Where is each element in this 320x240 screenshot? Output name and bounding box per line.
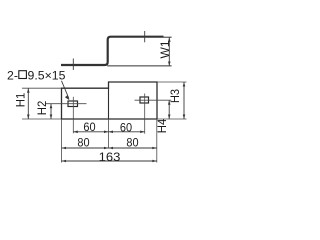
front view plate outline [62, 82, 158, 119]
dimension H2 line [50, 104, 52, 119]
svg-text:163: 163 [99, 150, 121, 164]
right hole horizontal centerline [135, 99, 172, 101]
svg-text:80: 80 [77, 136, 89, 150]
svg-text:H1: H1 [14, 92, 28, 107]
H3 top extension line [157, 81, 187, 83]
dimension W1 line [168, 37, 170, 66]
svg-text:H2: H2 [35, 100, 49, 115]
svg-text:60: 60 [120, 120, 132, 134]
svg-text:9.5×15: 9.5×15 [28, 68, 66, 82]
H1 bottom extension line [22, 118, 61, 120]
dimension H3 line [183, 82, 185, 119]
left hole horizontal centerline [45, 103, 87, 105]
svg-text:W1: W1 [158, 40, 172, 58]
left slot hole [68, 101, 78, 107]
step line lower extension [108, 119, 110, 148]
dimension H4 line [168, 100, 170, 119]
left edge lower extension line [61, 119, 63, 163]
svg-text:60: 60 [83, 120, 95, 134]
dimension H1 line [27, 88, 29, 119]
svg-text:80: 80 [126, 136, 138, 150]
left hole vertical centerline [72, 97, 74, 134]
svg-text:2-: 2- [7, 68, 18, 82]
right edge lower extension line [156, 119, 158, 163]
side view Z-profile [61, 37, 164, 65]
svg-text:H3: H3 [168, 89, 182, 103]
W1 top extension line [164, 36, 172, 38]
dimension 163 line [62, 160, 157, 162]
dimension 60 60 line [73, 131, 144, 133]
hole center tick on top flange [144, 31, 146, 42]
dimension 80 80 line [62, 147, 157, 149]
right hole vertical centerline [144, 94, 146, 134]
callout leader line [62, 81, 69, 99]
H3 H4 bottom extension line [157, 118, 187, 120]
W1 bottom extension line [107, 65, 171, 67]
hole center tick on bottom flange [72, 59, 74, 71]
right slot hole [140, 97, 149, 103]
step edge line [108, 88, 110, 119]
H1 top extension line [22, 87, 61, 89]
